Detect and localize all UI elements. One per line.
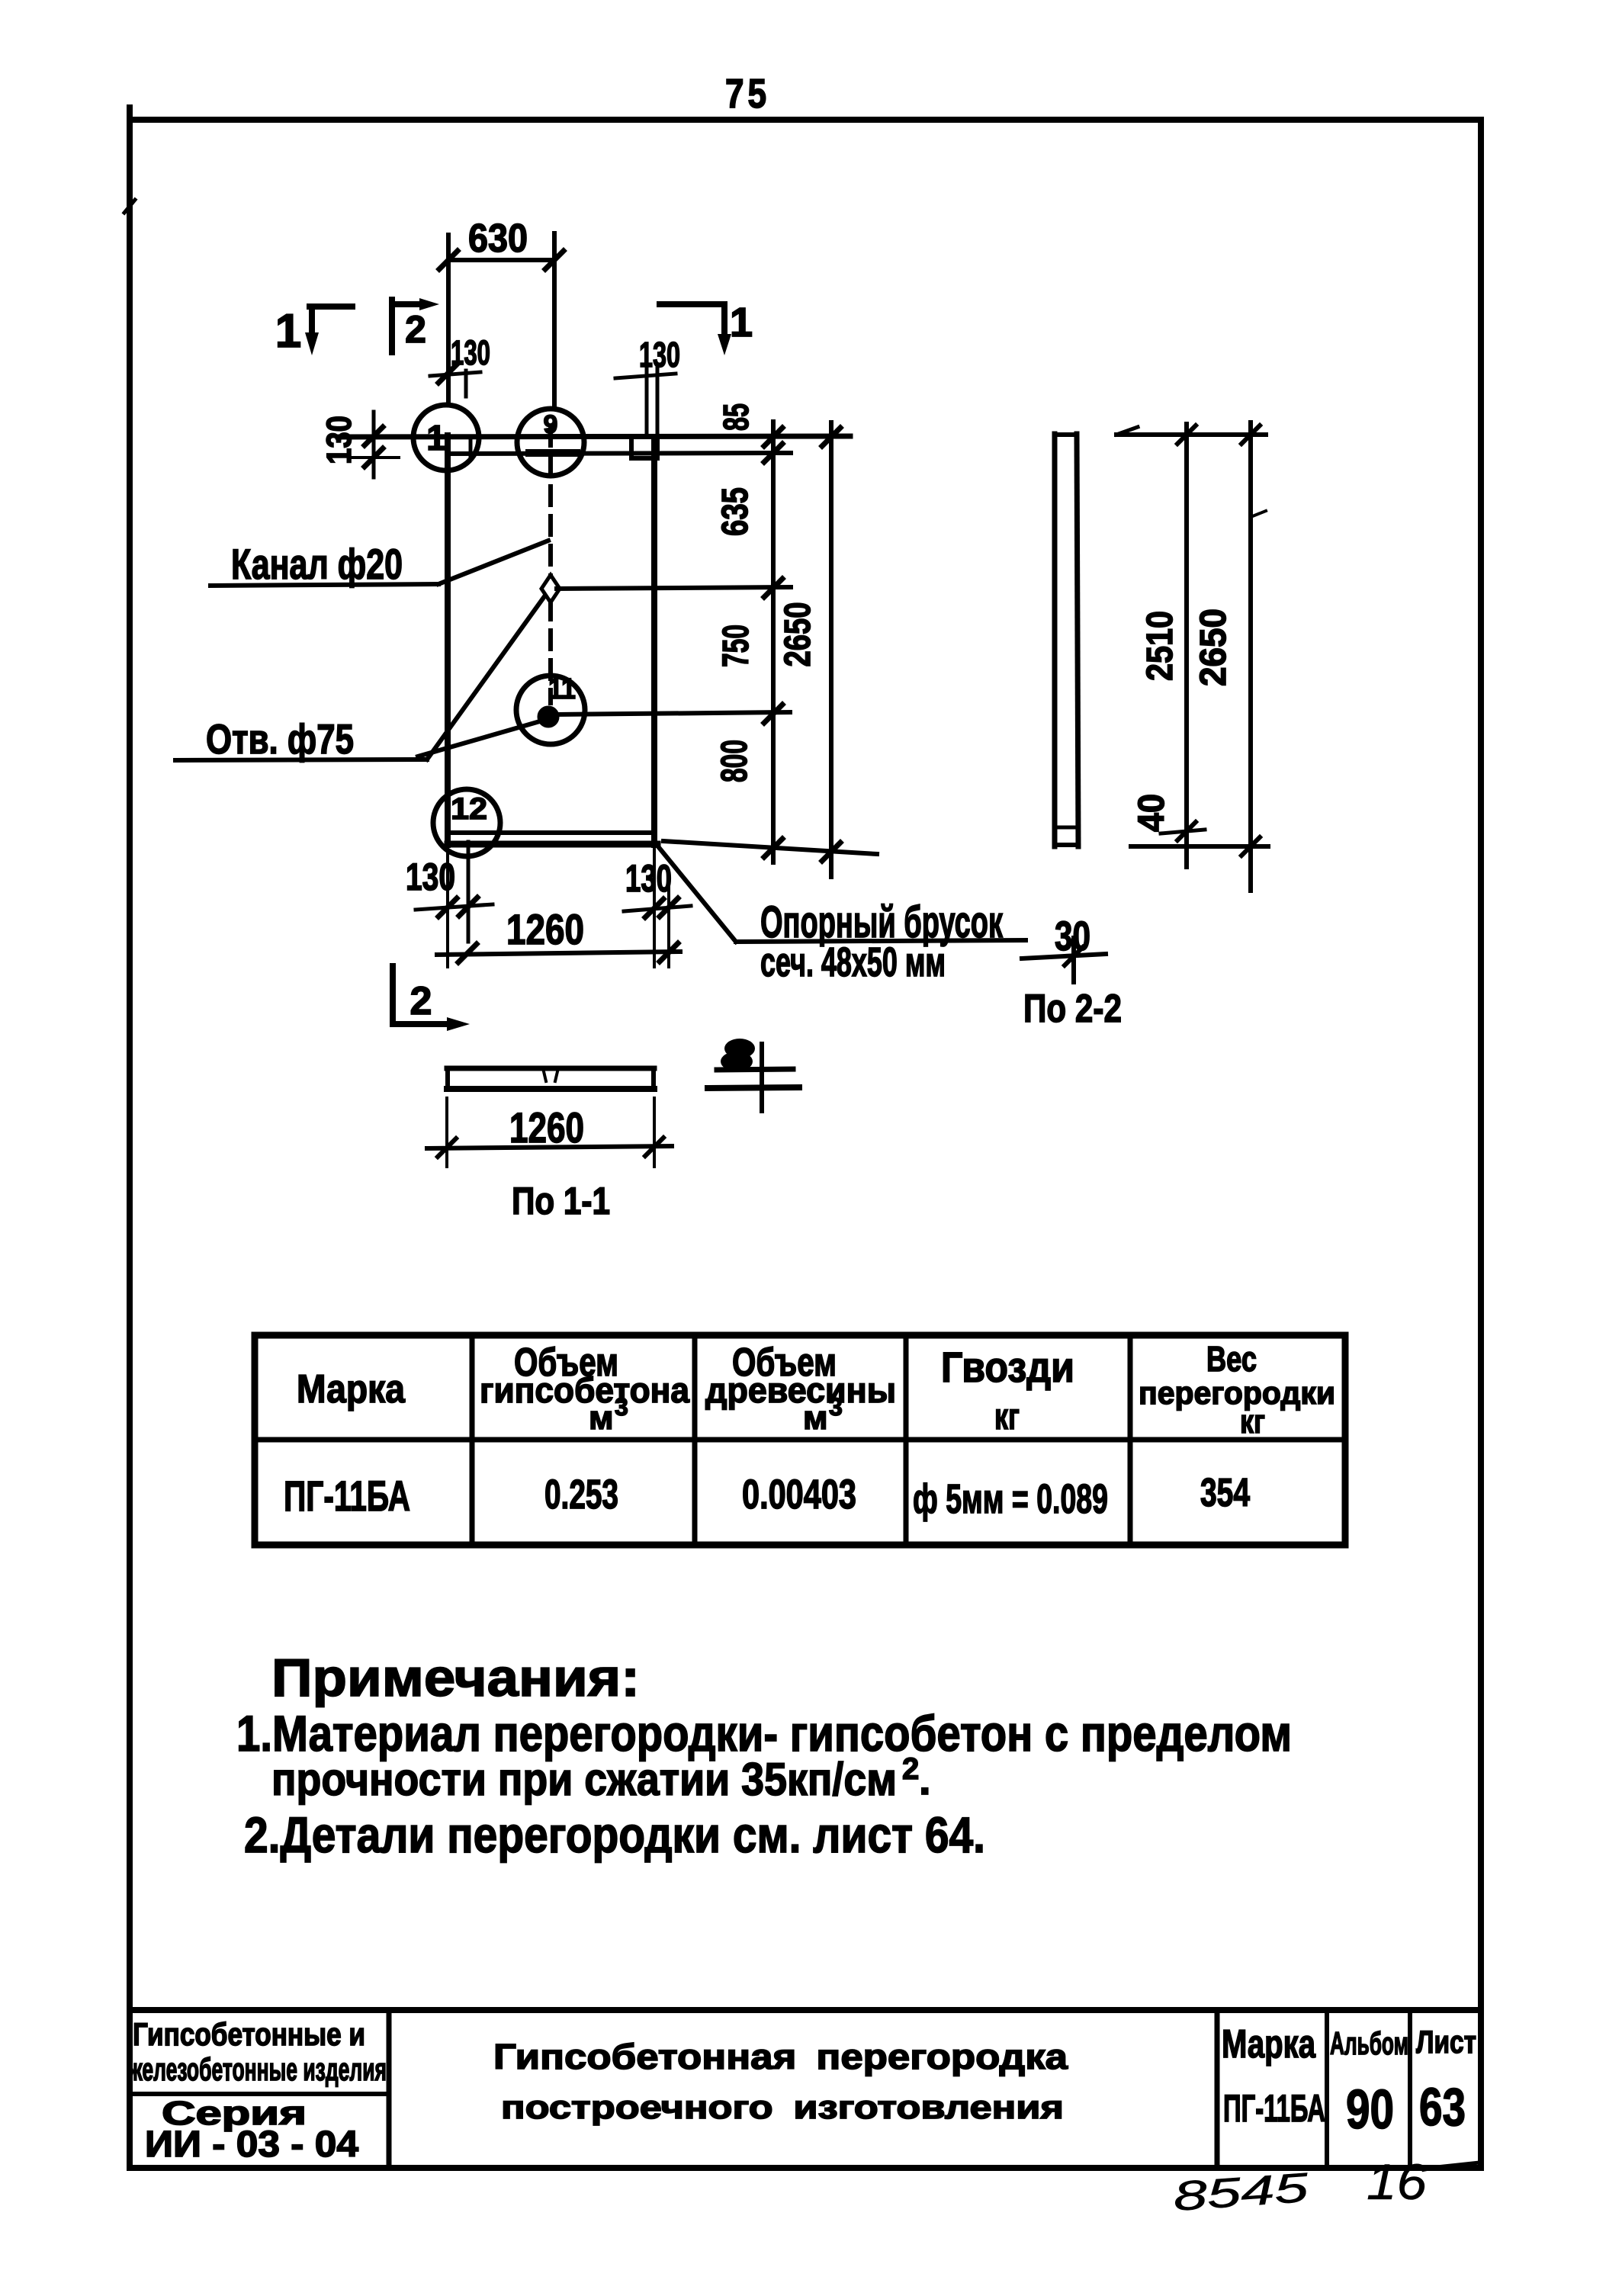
svg-text:ПГ-11БА: ПГ-11БА bbox=[1223, 2087, 1325, 2130]
otv underline bbox=[175, 759, 427, 760]
panel inner top line extended bbox=[448, 453, 791, 454]
border corner overshoot top-left bbox=[127, 108, 133, 130]
title block divider marka bbox=[1215, 2010, 1220, 2168]
section 1-1 dim 1260 ext right bbox=[653, 1098, 656, 1167]
svg-text:Марка: Марка bbox=[1222, 2022, 1316, 2066]
title block left cell horizontal divider bbox=[130, 2092, 389, 2096]
svg-text:Альбом: Альбом bbox=[1330, 2025, 1408, 2061]
node circle 2 bbox=[517, 409, 584, 476]
section 2-2 dim line 2510 bbox=[1184, 424, 1189, 867]
panel left edge bbox=[445, 435, 451, 845]
svg-text:2510: 2510 bbox=[1140, 611, 1180, 681]
plan bottom ext right edge bbox=[653, 845, 656, 967]
dim 30 lines bbox=[1022, 954, 1106, 959]
vertical dim line outer right bbox=[829, 422, 833, 877]
section marker 2 top bbox=[392, 300, 418, 352]
plan bottom ext left edge bbox=[446, 845, 449, 967]
section 1-1 bar bottom line bbox=[447, 1086, 654, 1092]
dim 130 topleft stub bbox=[464, 371, 468, 397]
svg-text:Марка: Марка bbox=[297, 1367, 406, 1411]
svg-text:По 2-2: По 2-2 bbox=[1023, 987, 1122, 1031]
svg-text:630: 630 bbox=[468, 217, 528, 261]
svg-text:древесины: древесины bbox=[705, 1370, 896, 1410]
dim 130 topright stub a bbox=[645, 364, 649, 435]
section 1-1 thickness label blob bbox=[724, 1039, 755, 1058]
dim 630 line bbox=[448, 258, 554, 262]
svg-text:1.Материал перегородки- гипсоб: 1.Материал перегородки- гипсобетон с пре… bbox=[236, 1705, 1292, 1761]
svg-text:Лист: Лист bbox=[1416, 2024, 1476, 2060]
title block divider list bbox=[1408, 2010, 1412, 2168]
top-left corner block bbox=[469, 438, 473, 456]
svg-text:800: 800 bbox=[715, 740, 755, 782]
section 2-2 bar right edge bbox=[1077, 434, 1078, 846]
section 2-2 bottom extension bbox=[1131, 844, 1268, 849]
svg-text:Отв. ф75: Отв. ф75 bbox=[206, 715, 354, 763]
table column line 3 bbox=[904, 1335, 909, 1545]
svg-text:кг: кг bbox=[1240, 1403, 1265, 1440]
section 2-2 bar top bbox=[1055, 432, 1077, 437]
svg-text:построечного изготовления: построечного изготовления bbox=[501, 2089, 1064, 2126]
section 2-2 bar left edge bbox=[1052, 434, 1058, 846]
svg-text:130: 130 bbox=[451, 333, 490, 372]
svg-text:1: 1 bbox=[426, 418, 446, 458]
dim 130 left lower line bbox=[352, 456, 399, 459]
svg-text:ИИ - 03 - 04: ИИ - 03 - 04 bbox=[145, 2124, 358, 2165]
section 1-1 dim 1260 line bbox=[427, 1146, 672, 1148]
svg-text:железобетонные изделия: железобетонные изделия bbox=[127, 2051, 387, 2087]
svg-text:130: 130 bbox=[406, 856, 455, 898]
svg-text:40: 40 bbox=[1132, 794, 1172, 832]
svg-text:м: м bbox=[803, 1399, 828, 1437]
vertical dim line inner right bbox=[771, 422, 776, 862]
section 1-1 thickness dim lines bbox=[717, 1069, 793, 1070]
svg-text:кг: кг bbox=[994, 1397, 1020, 1437]
svg-text:2: 2 bbox=[410, 979, 432, 1023]
node circle 1 bbox=[413, 405, 479, 470]
svg-text:130: 130 bbox=[639, 335, 680, 374]
dim 1260 plan line bbox=[437, 952, 680, 955]
dim 130 left vertical line bbox=[372, 412, 376, 477]
node line from filled hole bbox=[557, 712, 790, 714]
panel right edge bbox=[651, 437, 657, 845]
svg-text:635: 635 bbox=[715, 487, 756, 536]
section 1-1 bar left cap bbox=[445, 1068, 450, 1089]
title block divider left cell bbox=[387, 2010, 392, 2168]
border left small tick bbox=[124, 200, 135, 213]
svg-text:16: 16 bbox=[1367, 2153, 1427, 2210]
section marker 2 bottom bbox=[393, 966, 451, 1024]
svg-text:354: 354 bbox=[1200, 1471, 1250, 1515]
section 1-1 canal notch bbox=[543, 1068, 546, 1081]
svg-text:2650: 2650 bbox=[1193, 609, 1234, 686]
section 2-2 dim 40 tick bbox=[1161, 830, 1205, 833]
svg-text:130: 130 bbox=[625, 857, 672, 900]
svg-text:130: 130 bbox=[320, 416, 358, 464]
panel top edge line extended bbox=[338, 436, 850, 437]
section 2-2 top extension bbox=[1116, 432, 1266, 437]
svg-text:м: м bbox=[589, 1399, 614, 1437]
svg-text:85: 85 bbox=[716, 403, 756, 431]
title block top line bbox=[130, 2007, 1481, 2013]
dim 630 ext right bbox=[552, 233, 557, 409]
svg-text:2: 2 bbox=[902, 1752, 919, 1786]
canal dashed axis lower bbox=[548, 601, 553, 703]
dim 130 bottomright tick bbox=[624, 906, 691, 911]
panel bottom edge bbox=[448, 841, 657, 848]
svg-text:ф 5мм = 0.089: ф 5мм = 0.089 bbox=[913, 1476, 1108, 1522]
svg-text:ПГ-11БА: ПГ-11БА bbox=[284, 1472, 410, 1520]
otv leader to diamond bbox=[427, 596, 544, 759]
dash after 16 bbox=[1437, 2163, 1479, 2167]
section 2-2 top extension arrow bbox=[1116, 427, 1138, 435]
oporny brusok leader bbox=[654, 842, 736, 942]
svg-text:.: . bbox=[919, 1755, 931, 1803]
svg-text:90: 90 bbox=[1346, 2079, 1394, 2140]
plan bottom ext circle12 axis bbox=[467, 842, 471, 942]
canal dashed axis upper bbox=[548, 427, 553, 576]
kanal leader bbox=[438, 541, 548, 584]
svg-text:гипсобетона: гипсобетона bbox=[480, 1370, 689, 1410]
section marker 1 top left bbox=[310, 307, 352, 334]
svg-text:75: 75 bbox=[725, 71, 770, 117]
dim 130 bottomleft tick bbox=[416, 904, 493, 910]
section 1-1 bar top line bbox=[447, 1066, 654, 1071]
section 2-2 bar bottom bbox=[1055, 843, 1078, 847]
section 1-1 dim slashes bbox=[438, 1138, 456, 1157]
dim 630 ext left bbox=[446, 235, 451, 405]
section 2-2 bar inner line bbox=[1055, 826, 1077, 830]
svg-text:11: 11 bbox=[548, 673, 576, 705]
svg-text:1260: 1260 bbox=[506, 905, 584, 953]
dim 130 topright tick bbox=[615, 374, 676, 378]
table outer frame bbox=[255, 1335, 1345, 1545]
svg-text:прочности при сжатии 35кп/см: прочности при сжатии 35кп/см bbox=[271, 1754, 897, 1805]
bottom extension line right bbox=[663, 841, 877, 854]
svg-text:3: 3 bbox=[829, 1393, 843, 1421]
section 2-2 dim line 2650 bbox=[1248, 422, 1253, 891]
svg-text:сеч. 48х50 мм: сеч. 48х50 мм bbox=[760, 939, 946, 985]
svg-text:63: 63 bbox=[1419, 2077, 1466, 2137]
outer border frame bbox=[130, 120, 1481, 2168]
table column line 4 bbox=[1128, 1335, 1133, 1545]
svg-text:2: 2 bbox=[405, 308, 426, 351]
kanal underline bbox=[210, 584, 438, 586]
svg-text:Гипсобетонные и: Гипсобетонные и bbox=[133, 2016, 365, 2052]
svg-text:Канал ф20: Канал ф20 bbox=[231, 540, 403, 588]
section 2-2 dim slashes bbox=[1177, 425, 1260, 856]
dim 130 topleft tick bbox=[430, 372, 480, 376]
top-right corner block bbox=[631, 437, 657, 458]
oporny brusok underline bbox=[736, 940, 1026, 942]
panel bottom inner line bbox=[448, 830, 654, 835]
svg-text:Вес: Вес bbox=[1206, 1339, 1257, 1379]
svg-text:9: 9 bbox=[544, 410, 558, 439]
svg-text:2.Детали перегородки см. лист: 2.Детали перегородки см. лист 64. bbox=[244, 1806, 985, 1863]
svg-text:0.00403: 0.00403 bbox=[742, 1472, 856, 1517]
svg-text:0.253: 0.253 bbox=[544, 1472, 618, 1517]
svg-text:8545: 8545 bbox=[1172, 2165, 1311, 2220]
svg-text:1260: 1260 bbox=[509, 1103, 584, 1151]
title block divider albom bbox=[1325, 2010, 1329, 2168]
node circle 12 bbox=[433, 789, 500, 856]
otv leader to filled hole bbox=[418, 721, 540, 756]
node line from diamond bbox=[557, 587, 791, 589]
section 1-1 bar right cap bbox=[651, 1068, 656, 1089]
table column line 2 bbox=[692, 1335, 698, 1545]
plan bottom ext right axis bbox=[667, 873, 670, 967]
svg-text:Гвозди: Гвозди bbox=[941, 1343, 1074, 1391]
svg-text:Примечания:: Примечания: bbox=[271, 1648, 640, 1707]
dim 130 topright stub b bbox=[656, 364, 660, 435]
svg-text:2650: 2650 bbox=[778, 602, 818, 667]
svg-text:3: 3 bbox=[615, 1393, 628, 1421]
svg-text:750: 750 bbox=[716, 625, 756, 667]
node circle 11 bbox=[516, 676, 585, 744]
svg-text:12: 12 bbox=[451, 792, 487, 826]
svg-text:По 1-1: По 1-1 bbox=[512, 1180, 610, 1222]
brusok mark near canal bbox=[529, 449, 577, 457]
table column line 1 bbox=[470, 1335, 475, 1545]
svg-text:перегородки: перегородки bbox=[1139, 1375, 1335, 1411]
section 2-2 small mark on 2650 line bbox=[1251, 511, 1266, 517]
dim slash ticks bbox=[365, 251, 840, 962]
section marker 1 top right bbox=[660, 304, 724, 336]
table header divider bbox=[255, 1437, 1345, 1443]
hole filled node bbox=[538, 707, 558, 727]
hole diamond node bbox=[541, 575, 560, 602]
svg-text:1: 1 bbox=[275, 305, 301, 358]
section 1-1 dim 1260 ext left bbox=[445, 1098, 448, 1167]
svg-text:Гипсобетонная перегородка: Гипсобетонная перегородка bbox=[493, 2037, 1068, 2076]
svg-text:1: 1 bbox=[730, 300, 753, 345]
